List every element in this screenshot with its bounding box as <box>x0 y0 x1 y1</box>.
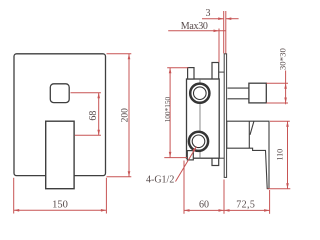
svg-text:200: 200 <box>121 108 131 123</box>
svg-text:3: 3 <box>206 8 211 19</box>
svg-text:150: 150 <box>52 200 68 211</box>
svg-text:68: 68 <box>88 111 99 121</box>
svg-text:72,5: 72,5 <box>236 200 255 211</box>
svg-text:4-G1/2: 4-G1/2 <box>146 174 174 185</box>
svg-text:30*30: 30*30 <box>278 48 288 71</box>
svg-text:100*150: 100*150 <box>163 96 172 122</box>
svg-text:Max30: Max30 <box>181 21 208 32</box>
svg-text:60: 60 <box>199 200 209 211</box>
svg-text:110: 110 <box>276 149 285 161</box>
